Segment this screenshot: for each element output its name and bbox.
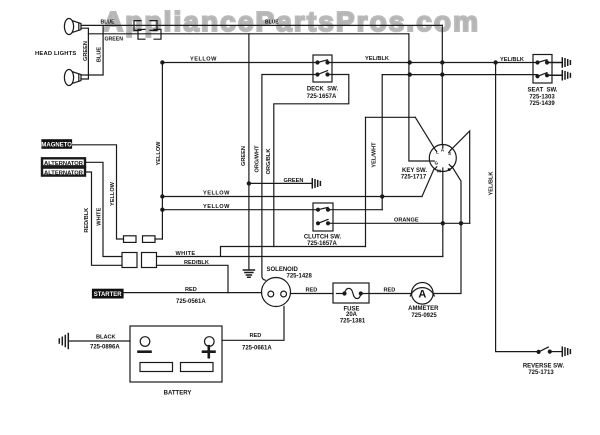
- svg-text:725-1713: 725-1713: [528, 370, 554, 376]
- ground (chassis, below green vertical): [243, 270, 254, 277]
- svg-text:RED: RED: [185, 287, 197, 293]
- headlight LAMP2 (lower): [64, 70, 81, 86]
- svg-text:725-1428: 725-1428: [287, 273, 313, 279]
- ground (clutch green): [312, 179, 320, 188]
- svg-text:BLUE: BLUE: [97, 47, 103, 62]
- wire YELLOW row1 (magneto kill): [162, 196, 422, 198]
- fuse FUSE 20A 725-1381: [333, 283, 369, 324]
- ground (seat switch upper): [547, 58, 570, 67]
- connector small pair (magneto to yellow vertical): [124, 236, 137, 243]
- svg-text:MAGNETO: MAGNETO: [41, 143, 72, 149]
- svg-text:ORANGE: ORANGE: [394, 218, 419, 224]
- solenoid SOLENOID 725-1428: [262, 267, 313, 306]
- ground (battery negative): [59, 334, 68, 349]
- wire GREEN row from headlights to vertical A: [88, 33, 409, 35]
- wire ORG/BLK from deck switch around label to row A: [274, 75, 349, 247]
- svg-text:YELLOW: YELLOW: [156, 141, 162, 166]
- reverse switch REVERSE SW. 725-1713: [523, 347, 565, 376]
- wire RED starter to solenoid: [122, 292, 262, 294]
- svg-text:725-0925: 725-0925: [411, 313, 437, 319]
- wire diagonal row3 to key switch L: [415, 117, 434, 147]
- ground (reverse switch): [562, 347, 570, 356]
- svg-text:BATTERY: BATTERY: [164, 390, 192, 396]
- svg-text:725-0561A: 725-0561A: [176, 299, 206, 305]
- svg-text:725-1439: 725-1439: [529, 101, 555, 107]
- magneto box MAGNETO: [41, 140, 72, 149]
- svg-text:YELLOW: YELLOW: [203, 190, 230, 196]
- svg-text:WHITE: WHITE: [97, 207, 103, 225]
- svg-text:20A: 20A: [346, 312, 358, 318]
- svg-text:725-0661A: 725-0661A: [242, 346, 272, 352]
- svg-text:A: A: [418, 289, 426, 301]
- connector pair on BLUE wire: [134, 21, 157, 31]
- svg-text:RED: RED: [306, 288, 318, 294]
- svg-text:YEL/WHT: YEL/WHT: [372, 142, 378, 168]
- watermark: [103, 6, 478, 37]
- svg-text:G: G: [435, 160, 439, 165]
- svg-text:AMMETER: AMMETER: [408, 306, 439, 312]
- wire RED fuse to ammeter: [369, 293, 412, 295]
- svg-text:KEY SW.: KEY SW.: [402, 168, 427, 174]
- wire GREEN ground stub row: [249, 182, 312, 184]
- svg-text:725-1303: 725-1303: [529, 94, 555, 100]
- svg-text:STARTER: STARTER: [94, 292, 123, 298]
- wire BLUE row from lamp1 to key switch column: [81, 24, 442, 26]
- wire row3 to key switch: [366, 116, 416, 118]
- connector pair on GREEN row: [138, 29, 161, 39]
- wire YEL/WHT vertical: [365, 117, 367, 246]
- wire key switch bottom vertical down to white row: [442, 172, 444, 257]
- svg-text:BLACK: BLACK: [96, 335, 116, 341]
- ammeter AMMETER 725-0925: [408, 283, 439, 319]
- wire magneto YELLOW lead to connector: [72, 145, 124, 239]
- svg-text:WHITE: WHITE: [176, 251, 196, 257]
- deck switch DECK SW. 725-1657A: [307, 55, 339, 100]
- svg-text:725-0896A: 725-0896A: [90, 345, 120, 351]
- wire RED/BLK row to starter node: [157, 265, 229, 292]
- svg-text:YEL/BLK: YEL/BLK: [500, 57, 524, 63]
- svg-text:SEAT SW.: SEAT SW.: [528, 87, 558, 93]
- svg-text:725-1381: 725-1381: [340, 318, 366, 324]
- svg-text:SOLENOID: SOLENOID: [267, 267, 299, 273]
- wire step and row A: [221, 247, 366, 257]
- key switch KEY SW. 725-1717: [401, 145, 456, 181]
- svg-text:RED/BLK: RED/BLK: [84, 208, 90, 233]
- headlight LAMP1 (upper): [64, 19, 81, 35]
- svg-text:AppliancePartsPros.com: AppliancePartsPros.com: [103, 6, 478, 37]
- alternator box ALTERNATOR (upper): [42, 158, 85, 167]
- svg-text:YEL/BLK: YEL/BLK: [365, 56, 389, 62]
- wire key switch S diagonal and vertical: [451, 131, 470, 223]
- svg-text:GREEN: GREEN: [83, 41, 89, 61]
- wire row2: seat switch lower to vertical B: [382, 74, 537, 76]
- alternator box ALTERNATOR (lower): [42, 168, 85, 177]
- svg-text:GREEN: GREEN: [241, 146, 247, 166]
- wire lamp1 lower stub to GREEN vertical: [81, 28, 88, 79]
- wire connector to yellow vertical: [155, 238, 162, 240]
- svg-text:S: S: [448, 151, 451, 156]
- svg-text:A: A: [441, 148, 445, 153]
- wire vertical B: row2 down to yellow row2: [381, 75, 383, 210]
- svg-text:HEAD LIGHTS: HEAD LIGHTS: [35, 51, 77, 57]
- wire alternator WHITE lead down: [85, 162, 122, 256]
- ground (seat switch lower): [547, 71, 570, 80]
- svg-text:ALTERNATOR: ALTERNATOR: [44, 161, 84, 167]
- wire YEL/BLK vertical to reverse switch: [496, 63, 537, 352]
- wire YELLOW vertical (junction column): [161, 63, 163, 240]
- svg-text:CLUTCH SW.: CLUTCH SW.: [304, 235, 342, 241]
- svg-text:M: M: [437, 169, 441, 174]
- wire BLUE vertical down to key switch A: [441, 25, 443, 144]
- svg-text:YELLOW: YELLOW: [110, 181, 116, 206]
- svg-text:YELLOW: YELLOW: [203, 204, 230, 210]
- svg-text:DECK SW.: DECK SW.: [307, 87, 339, 93]
- battery BATTERY: [130, 326, 222, 396]
- wire key switch M diagonal to yellow row1: [422, 169, 434, 196]
- svg-text:BLUE: BLUE: [101, 20, 116, 26]
- svg-text:725-1657A: 725-1657A: [307, 94, 337, 100]
- connector large pair (alternator leads): [122, 253, 137, 268]
- wire GREEN vertical A down from green row: [408, 34, 410, 118]
- svg-text:RED: RED: [384, 288, 396, 294]
- wire YELLOW row1-left: junction to deck switch: [162, 62, 317, 64]
- wire YEL/BLK row1-right: deck switch to seat switch: [328, 62, 538, 64]
- wire GREEN vertical to chassis ground: [248, 34, 250, 270]
- wire key switch G lead: [409, 117, 430, 161]
- wire BLUE vertical to lamp2: [81, 25, 103, 75]
- wire ORANGE row from clutch switch to S vertical: [328, 222, 470, 224]
- clutch switch CLUTCH SW. 725-1657A: [304, 203, 342, 247]
- svg-text:RED/BLK: RED/BLK: [184, 260, 209, 266]
- svg-text:RED: RED: [250, 333, 262, 339]
- wire RED battery positive to solenoid: [222, 306, 284, 340]
- wire ORG/WHT vertical from deck switch to solenoid: [262, 75, 318, 281]
- svg-text:725-1717: 725-1717: [401, 175, 427, 181]
- wire BLACK battery negative to ground: [69, 340, 130, 342]
- svg-text:ALTERNATOR: ALTERNATOR: [44, 170, 84, 176]
- wire YELLOW row2 through clutch switch: [162, 209, 382, 211]
- svg-text:ORG/BLK: ORG/BLK: [266, 149, 272, 175]
- svg-text:GREEN: GREEN: [284, 178, 304, 184]
- svg-text:YEL/BLK: YEL/BLK: [488, 172, 494, 196]
- svg-text:YELLOW: YELLOW: [190, 57, 217, 63]
- wire WHITE row B to key switch corner: [157, 256, 443, 258]
- wire alternator RED/BLK lead down: [85, 172, 122, 265]
- svg-text:L: L: [436, 150, 439, 155]
- svg-text:GREEN: GREEN: [105, 36, 124, 42]
- svg-text:REVERSE SW.: REVERSE SW.: [523, 363, 565, 369]
- svg-text:ORG/WHT: ORG/WHT: [254, 145, 260, 173]
- starter box STARTER: [93, 289, 124, 298]
- svg-text:BLUE: BLUE: [265, 19, 279, 25]
- wire key switch B diagonal, vertical to ammeter: [433, 167, 461, 294]
- seat switch SEAT SW. 725-1303 / 725-1439: [528, 55, 558, 107]
- wire RED solenoid to fuse: [291, 293, 334, 295]
